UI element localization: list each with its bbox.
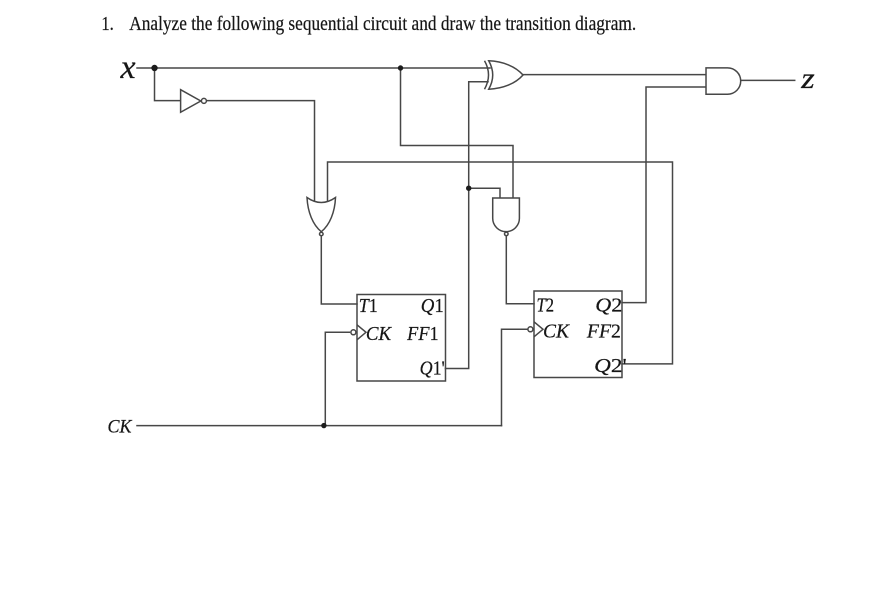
svg-text:Q2: Q2 (595, 295, 622, 317)
svg-text:T2: T2 (536, 294, 554, 316)
svg-text:Q2': Q2' (594, 355, 627, 377)
svg-text:Q1': Q1' (420, 357, 445, 379)
svg-text:Analyze the following sequenti: Analyze the following sequential circuit… (129, 14, 636, 35)
svg-text:FF2: FF2 (586, 320, 621, 342)
svg-text:FF1: FF1 (406, 323, 438, 345)
svg-text:x: x (120, 49, 136, 86)
svg-text:Q1: Q1 (421, 295, 444, 317)
svg-text:CK: CK (543, 320, 571, 342)
svg-text:CK: CK (366, 323, 393, 345)
svg-text:z: z (800, 62, 815, 95)
svg-text:T1: T1 (359, 295, 378, 317)
svg-text:CK: CK (107, 418, 133, 438)
svg-text:1.: 1. (101, 14, 114, 35)
